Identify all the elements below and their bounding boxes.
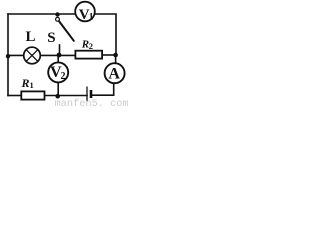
svg-text:L: L (26, 29, 36, 45)
svg-text:2: 2 (61, 71, 66, 82)
svg-text:R: R (21, 76, 30, 90)
svg-text:S: S (47, 30, 55, 46)
svg-text:A: A (108, 65, 120, 82)
svg-text:1: 1 (30, 80, 34, 90)
svg-text:2: 2 (89, 41, 93, 51)
svg-text:1: 1 (89, 13, 94, 23)
svg-text:manfen5. com: manfen5. com (55, 98, 129, 108)
